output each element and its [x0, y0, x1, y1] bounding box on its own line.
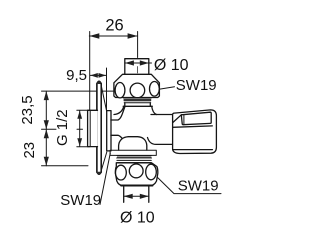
hub waist tube bottom — [111, 135, 129, 148]
washer stack bottom — [117, 156, 152, 163]
bottom compression nut SW19 — [115, 163, 157, 186]
bottom nut center wrench circle — [129, 164, 143, 178]
thread line — [89, 110, 91, 146]
dimension G1/2 bottom arrow — [77, 138, 82, 146]
top nut left wrench circle — [115, 83, 125, 98]
svg-text:SW19: SW19 — [60, 192, 101, 209]
leader SW19 bottom right — [154, 174, 222, 194]
tick G1/2 center — [77, 128, 83, 130]
hub flange ring — [107, 111, 111, 151]
bottom nut left wrench circle — [116, 165, 127, 180]
dimension 9,5 line — [90, 74, 106, 76]
branch pipe top edge — [151, 114, 173, 116]
svg-text:Ø 10: Ø 10 — [120, 209, 155, 226]
svg-text:23: 23 — [21, 142, 38, 159]
handle bottom edge line — [173, 149, 213, 151]
svg-text:23,5: 23,5 — [19, 95, 36, 124]
body upper left fillet — [114, 106, 124, 114]
tick 23 bottom extension — [42, 165, 89, 167]
top washer stack — [124, 98, 152, 103]
dimension 9,5 left arrow — [90, 73, 98, 78]
dimension top Ø10 left arrow — [125, 60, 134, 65]
leader SW19 bottom left — [100, 153, 110, 205]
dimension G1/2 line — [79, 111, 81, 147]
dimension 23,5 line — [45, 91, 47, 129]
top nut right wrench circle — [150, 82, 160, 97]
tick 23,5 top extension — [42, 90, 115, 92]
svg-text:SW19: SW19 — [178, 178, 219, 195]
bottom nut right wrench circle — [146, 164, 157, 180]
dimension G1/2 top arrow — [77, 111, 82, 119]
body upper right fillet — [152, 106, 157, 114]
top pipe centerline — [137, 67, 139, 74]
dimension 23 line — [45, 129, 47, 166]
dimension bottom Ø10 line — [124, 195, 149, 197]
collar line — [123, 105, 152, 107]
dimension bottom Ø10 right arrow — [140, 194, 149, 199]
body flange block — [110, 150, 156, 155]
body lower dome — [119, 137, 147, 150]
bottom nut bottom thick edge — [121, 185, 152, 187]
G 1/2 threaded stub — [88, 110, 98, 146]
dimension 23,5 top arrow — [44, 91, 49, 100]
svg-text:SW19: SW19 — [176, 77, 217, 94]
rosette cone top edge — [101, 84, 107, 113]
dimension 9,5 extension line — [106, 68, 108, 111]
top stub pipe — [125, 59, 149, 74]
top nut center wrench circle — [130, 83, 145, 98]
tick center extension — [42, 128, 57, 130]
dimension 26 right arrow — [128, 33, 138, 38]
rosette top tip — [96, 81, 101, 84]
dimension bottom Ø10 left arrow — [124, 194, 133, 199]
dimension 26 right extension line (pipe axis) — [137, 32, 139, 58]
handle panel inner tick — [183, 115, 185, 125]
bottom stub pipe — [124, 187, 149, 203]
dimension top Ø10 line — [125, 62, 152, 64]
svg-text:Ø 10: Ø 10 — [154, 57, 189, 74]
dimension 23 bottom arrow — [44, 157, 49, 166]
tick G1/2 top — [77, 109, 90, 111]
handle knob — [173, 110, 217, 154]
rosette wall plate — [97, 81, 101, 174]
neck below top nut — [125, 103, 151, 106]
dimension 23 top arrow — [44, 129, 49, 138]
top compression nut SW19 — [114, 74, 159, 97]
rosette bottom tip — [96, 172, 101, 175]
svg-text:G 1/2: G 1/2 — [54, 109, 71, 146]
dimension 26 left arrow — [89, 33, 99, 38]
hub waist tube top — [111, 107, 125, 120]
svg-text:9,5: 9,5 — [66, 67, 87, 84]
handle front face edge — [173, 126, 213, 127]
dimension top Ø10 right arrow — [140, 60, 149, 65]
rosette cone bottom edge — [101, 152, 107, 172]
dimension 26 left extension line (wall plane) — [89, 32, 91, 111]
handle top face chamfer — [173, 115, 182, 123]
branch pipe bottom edge — [148, 138, 174, 145]
dimension 23,5 bottom arrow — [44, 120, 49, 129]
tick G1/2 bottom — [77, 146, 90, 148]
svg-text:26: 26 — [105, 16, 123, 34]
dimension 9,5 right arrow — [99, 73, 107, 78]
dimension 26 line — [89, 35, 137, 37]
handle recessed panel — [181, 112, 211, 125]
leader SW19 top right — [159, 87, 175, 90]
